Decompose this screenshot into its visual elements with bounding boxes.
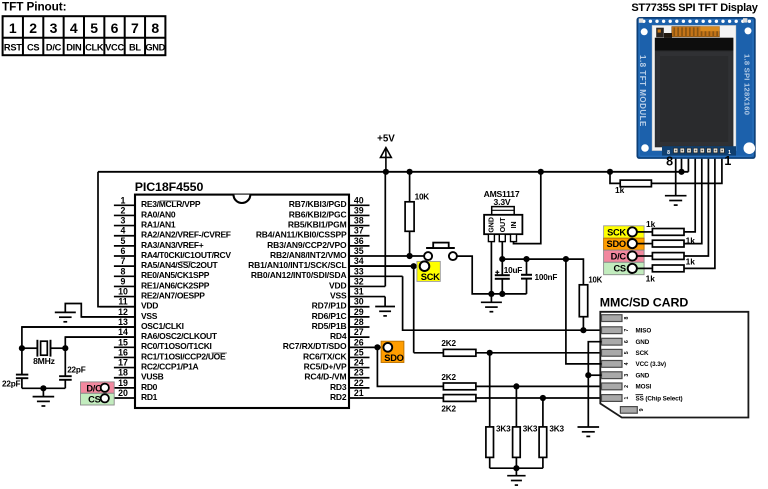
svg-text:33: 33 bbox=[354, 266, 364, 276]
wire 1k D/C to TFT pin3 bbox=[684, 151, 708, 257]
svg-text:9: 9 bbox=[121, 276, 126, 286]
U1 pin 37 RB4/AN11/KBI0/CSSPP bbox=[256, 226, 370, 240]
U1 pin 32 VDD bbox=[329, 276, 385, 290]
wire 1k RST to TFT pin1 bbox=[651, 151, 722, 184]
pushbutton S1 bbox=[424, 243, 457, 261]
junction 10K pullup bbox=[407, 169, 413, 175]
U1 pin 5 RA3/AN3/VREF+ bbox=[114, 236, 204, 250]
MMC pin 2 bbox=[602, 383, 652, 391]
U1 UOE overline pin16 bbox=[212, 352, 228, 354]
U1 pin 21 RD2 bbox=[330, 388, 443, 402]
svg-text:RA2/AN2/VREF-/CVREF: RA2/AN2/VREF-/CVREF bbox=[141, 230, 231, 240]
svg-text:10K: 10K bbox=[415, 192, 430, 201]
wire U1 pin13 OSC1 to crystal bbox=[22, 327, 135, 348]
svg-text:RD0: RD0 bbox=[141, 382, 158, 392]
svg-text:1: 1 bbox=[9, 20, 17, 36]
svg-text:VUSB: VUSB bbox=[141, 372, 164, 382]
svg-text:17: 17 bbox=[118, 358, 128, 368]
svg-text:RE0/AN5/CK1SPP: RE0/AN5/CK1SPP bbox=[141, 270, 210, 280]
node crystal left junction bbox=[19, 345, 25, 351]
svg-text:22: 22 bbox=[354, 378, 364, 388]
wire MMC GND pin3 bbox=[588, 374, 601, 376]
svg-text:1k: 1k bbox=[686, 257, 696, 267]
U1 pin 4 RA2/AN2/VREF-/CVREF bbox=[114, 226, 231, 240]
U1 SS overline pin7 bbox=[180, 261, 192, 263]
svg-text:PIC18F4550: PIC18F4550 bbox=[135, 180, 204, 194]
svg-text:RB7/KBI3/PGD: RB7/KBI3/PGD bbox=[289, 199, 347, 209]
junction SCK branch bbox=[411, 263, 417, 269]
junction 3K3 ground bbox=[513, 465, 519, 471]
svg-text:25: 25 bbox=[354, 347, 364, 357]
MMC pin 1 bbox=[602, 395, 631, 402]
regulator U2 AMS1117 3.3V bbox=[484, 189, 523, 242]
resistor R9 3K3 SCK divider bbox=[486, 353, 511, 468]
wire U1 pin32 VDD to +5V rail bbox=[384, 172, 386, 287]
svg-text:1k: 1k bbox=[615, 185, 625, 195]
junction AMS1117 IN riser bbox=[538, 169, 544, 175]
svg-text:29: 29 bbox=[354, 307, 364, 317]
wire 1k CS to TFT pin2 bbox=[684, 151, 715, 269]
svg-text:31: 31 bbox=[354, 287, 364, 297]
wire TFT pin8 GND bbox=[675, 151, 677, 196]
svg-text:RD7/P1D: RD7/P1D bbox=[312, 301, 347, 311]
svg-text:39: 39 bbox=[354, 205, 364, 215]
svg-text:13: 13 bbox=[118, 317, 128, 327]
U1 pin 7 RA5/AN4/SS/C2OUT bbox=[114, 256, 219, 270]
TFT display module bbox=[637, 18, 755, 158]
U1 pin 36 RB3/AN9/CCP2/VPO bbox=[267, 236, 369, 250]
svg-text:RC0/T1OSO/T1CKI: RC0/T1OSO/T1CKI bbox=[141, 341, 212, 351]
svg-text:1.8 TFT MODULE: 1.8 TFT MODULE bbox=[638, 55, 647, 127]
svg-text:3: 3 bbox=[624, 374, 630, 377]
U1 pin 31 VSS bbox=[330, 287, 385, 301]
svg-text:7: 7 bbox=[121, 256, 126, 266]
junction SS/3K3 bbox=[540, 395, 546, 401]
svg-text:1: 1 bbox=[121, 195, 126, 205]
svg-text:RA5/AN4/SS/C2OUT: RA5/AN4/SS/C2OUT bbox=[141, 260, 219, 270]
svg-text:7: 7 bbox=[624, 329, 630, 332]
U1 pin 3 RA1/AN1 bbox=[114, 216, 176, 230]
wire SCK row right bbox=[476, 352, 602, 354]
wire 1k SDO to TFT pin4 bbox=[684, 151, 702, 244]
U1 pin 6 RA4/T0CKI/C1OUT/RCV bbox=[114, 246, 231, 260]
wire +5V rail bbox=[98, 171, 688, 173]
svg-text:30: 30 bbox=[354, 297, 364, 307]
svg-text:36: 36 bbox=[354, 236, 364, 246]
node SCK connector right bbox=[604, 226, 645, 238]
node CS connector left bbox=[81, 393, 115, 405]
wire MMC GND pin6 bbox=[588, 342, 601, 427]
node D/C connector left bbox=[81, 382, 115, 393]
svg-text:28: 28 bbox=[354, 317, 364, 327]
MMC pin 7 bbox=[602, 327, 652, 335]
svg-text:RC4/D-/VM: RC4/D-/VM bbox=[304, 372, 346, 382]
svg-text:+5V: +5V bbox=[377, 134, 395, 145]
svg-text:DIN: DIN bbox=[66, 43, 82, 53]
svg-text:GND: GND bbox=[636, 339, 650, 346]
svg-text:32: 32 bbox=[354, 276, 364, 286]
svg-text:5: 5 bbox=[121, 236, 126, 246]
U1 pin 2 RA0/AN0 bbox=[114, 205, 176, 219]
wire MOSI row right bbox=[476, 385, 602, 387]
svg-text:2: 2 bbox=[29, 20, 37, 36]
wire crystal caps to ground bbox=[22, 387, 65, 389]
svg-text:VDD: VDD bbox=[329, 280, 347, 290]
U1 pin 25 RC6/TX/CK bbox=[303, 347, 370, 361]
svg-text:10: 10 bbox=[118, 287, 128, 297]
svg-text:MISO: MISO bbox=[636, 328, 652, 335]
svg-text:3: 3 bbox=[121, 216, 126, 226]
svg-text:8: 8 bbox=[624, 317, 630, 320]
U1 pin 35 RB2/AN8/INT2/VMO bbox=[270, 246, 369, 260]
junction VCC drop bbox=[563, 256, 569, 262]
svg-text:RB0/AN12/INT0/SDI/SDA: RB0/AN12/INT0/SDI/SDA bbox=[251, 270, 347, 280]
svg-text:ST7735S SPI TFT Display: ST7735S SPI TFT Display bbox=[631, 2, 758, 14]
svg-text:OSC1/CLKI: OSC1/CLKI bbox=[141, 321, 184, 331]
resistor R1 10K pullup bbox=[405, 172, 429, 256]
svg-text:8: 8 bbox=[666, 155, 673, 169]
ground MMC bbox=[578, 426, 600, 428]
svg-text:18: 18 bbox=[118, 368, 128, 378]
svg-text:RA0/AN0: RA0/AN0 bbox=[141, 209, 176, 219]
resistor R14 1k D/C to TFT DC bbox=[637, 253, 695, 267]
svg-text:10K: 10K bbox=[588, 275, 602, 284]
svg-text:OUT: OUT bbox=[500, 217, 507, 233]
svg-text:15: 15 bbox=[118, 337, 128, 347]
wire U1 pin12 VSS to ground bbox=[65, 304, 135, 317]
svg-text:26: 26 bbox=[354, 337, 364, 347]
U1 pin 38 RB5/KBI1/PGM bbox=[288, 216, 370, 230]
junction ground rail 10uF bbox=[499, 291, 505, 297]
svg-text:SDO: SDO bbox=[607, 239, 626, 249]
svg-text:GND: GND bbox=[636, 373, 650, 380]
svg-text:RA4/T0CKI/C1OUT/RCV: RA4/T0CKI/C1OUT/RCV bbox=[141, 250, 231, 260]
svg-text:VDD: VDD bbox=[141, 301, 158, 311]
svg-text:19: 19 bbox=[118, 378, 128, 388]
U1 pin 1 RE3/MCLR/VPP bbox=[114, 195, 201, 209]
wire 1k SCK to TFT pin5 bbox=[684, 151, 695, 232]
wire U2 OUT pin to 3.3V rail bbox=[501, 242, 503, 260]
MMC pin 1 SS label with overline bbox=[636, 395, 683, 403]
svg-text:SS (Chip Select): SS (Chip Select) bbox=[636, 395, 683, 402]
svg-text:RA1/AN1: RA1/AN1 bbox=[141, 219, 176, 229]
U1 pin 24 RC5/D+/VP bbox=[304, 358, 370, 372]
svg-text:RB6/KBI2/PGC: RB6/KBI2/PGC bbox=[289, 209, 347, 219]
node crystal right junction bbox=[62, 345, 68, 351]
node CS connector right bbox=[604, 262, 645, 274]
svg-text:40: 40 bbox=[354, 195, 364, 205]
svg-text:1.8 SPI 128X160: 1.8 SPI 128X160 bbox=[743, 54, 752, 115]
svg-text:2: 2 bbox=[624, 385, 630, 388]
U1 pin 23 RC4/D-/VM bbox=[304, 368, 369, 382]
U1 pin 12 VSS bbox=[81, 307, 157, 321]
svg-text:MOSI: MOSI bbox=[636, 384, 652, 391]
svg-text:35: 35 bbox=[354, 246, 364, 256]
svg-text:6: 6 bbox=[121, 246, 126, 256]
resistor R7 10K MISO pullup bbox=[579, 275, 602, 330]
junction 1k RST pullup bbox=[607, 169, 613, 175]
resistor R15 1k CS to TFT CS bbox=[637, 265, 684, 283]
wire U2 IN pin to +5V rail bbox=[514, 172, 541, 244]
svg-text:RD5/P1B: RD5/P1B bbox=[312, 321, 347, 331]
ground U1 pin31 VSS bbox=[375, 297, 395, 316]
svg-text:8: 8 bbox=[121, 266, 126, 276]
TFT pin row labels bbox=[666, 154, 731, 169]
svg-text:38: 38 bbox=[354, 216, 364, 226]
wire U1 pin33 SDI to MMC MISO bbox=[403, 276, 602, 330]
node SCK connector left bbox=[417, 261, 440, 282]
svg-text:CLK: CLK bbox=[85, 43, 104, 53]
svg-text:2K2: 2K2 bbox=[441, 339, 456, 348]
svg-text:22pF: 22pF bbox=[2, 380, 21, 389]
svg-text:D/C: D/C bbox=[86, 383, 102, 393]
svg-text:SCK: SCK bbox=[607, 227, 626, 237]
U1 pin 28 RD5/P1B bbox=[312, 317, 370, 331]
junction 10K/MISO bbox=[580, 327, 586, 333]
svg-text:8MHz: 8MHz bbox=[33, 356, 55, 366]
svg-text:1k: 1k bbox=[646, 273, 656, 283]
wire U1 pin14 OSC2 to crystal bbox=[65, 337, 135, 348]
resistor R4 2K2 SCK bbox=[441, 339, 476, 356]
svg-text:3K3: 3K3 bbox=[523, 425, 538, 434]
svg-text:VCC: VCC bbox=[105, 43, 124, 53]
junction pin35/10K bbox=[407, 253, 413, 259]
resistor R13 1k SDO to TFT DIN bbox=[637, 235, 695, 247]
resistor R11 3K3 SS divider bbox=[539, 398, 564, 468]
TFT pinout table bbox=[3, 16, 166, 55]
svg-text:RC2/CCP1/P1A: RC2/CCP1/P1A bbox=[141, 361, 198, 371]
svg-text:D/C: D/C bbox=[46, 43, 62, 53]
capacitor C4 22pF right bbox=[59, 348, 86, 388]
junction TFT BL pin7 bbox=[678, 169, 684, 175]
capacitor C3 22pF left bbox=[2, 348, 28, 388]
svg-text:14: 14 bbox=[118, 327, 128, 337]
svg-text:SCK: SCK bbox=[636, 350, 650, 357]
+5V supply symbol bbox=[377, 134, 395, 172]
svg-text:3K3: 3K3 bbox=[549, 425, 564, 434]
wire SCK row to MMC pin5 bbox=[414, 352, 444, 354]
wire U2 GND pin to ground rail bbox=[490, 242, 492, 294]
svg-text:SDO: SDO bbox=[384, 353, 403, 363]
U1 pin 16 RC1/T1OSI/CCP2/UOE bbox=[114, 347, 226, 361]
U1 pin 13 OSC1/CLKI bbox=[22, 317, 184, 331]
svg-text:RD4: RD4 bbox=[330, 331, 347, 341]
MMC pin 8 bbox=[602, 315, 631, 322]
svg-text:1: 1 bbox=[624, 396, 630, 399]
node SDO connector right bbox=[604, 238, 645, 250]
resistor R2 1k RST pullup bbox=[610, 172, 651, 195]
svg-text:SCK: SCK bbox=[421, 272, 440, 282]
U1 pin 10 RE2/AN7/OESPP bbox=[114, 287, 205, 301]
svg-text:100nF: 100nF bbox=[535, 273, 558, 282]
resistor R12 1k SCK to TFT CLK bbox=[637, 219, 684, 235]
svg-text:2K2: 2K2 bbox=[441, 404, 456, 413]
U1 pin 20 RD1 bbox=[109, 388, 157, 402]
svg-text:RE2/AN7/OESPP: RE2/AN7/OESPP bbox=[141, 290, 205, 300]
svg-text:MMC/SD CARD: MMC/SD CARD bbox=[600, 295, 689, 309]
wire 3.3V to MMC VCC pin4 bbox=[566, 259, 602, 364]
svg-text:RA3/AN3/VREF+: RA3/AN3/VREF+ bbox=[141, 240, 204, 250]
svg-text:4: 4 bbox=[70, 20, 78, 36]
svg-text:6: 6 bbox=[624, 340, 630, 343]
junction crystal ground bbox=[40, 385, 46, 391]
wire crystal left lead bbox=[22, 347, 38, 349]
svg-text:2K2: 2K2 bbox=[441, 373, 456, 382]
U1 pin 8 RE0/AN5/CK1SPP bbox=[114, 266, 210, 280]
svg-text:CS: CS bbox=[88, 395, 100, 405]
svg-text:4: 4 bbox=[121, 226, 126, 236]
svg-text:GND: GND bbox=[489, 217, 496, 233]
MMC pin 4 bbox=[602, 361, 667, 369]
svg-text:10uF: 10uF bbox=[504, 266, 523, 275]
MMC pin 9 bbox=[620, 407, 644, 414]
svg-text:TFT Pinout:: TFT Pinout: bbox=[2, 0, 66, 14]
U1 pin 33 RB0/AN12/INT0/SDI/SDA bbox=[251, 266, 403, 280]
U1 pin 29 RD6/P1C bbox=[312, 307, 370, 321]
svg-text:RC7/RX/DT/SDO: RC7/RX/DT/SDO bbox=[283, 341, 347, 351]
svg-text:RD6/P1C: RD6/P1C bbox=[312, 311, 347, 321]
wire SDO branch to MOSI row bbox=[377, 347, 443, 386]
svg-text:RE1/AN6/CK2SPP: RE1/AN6/CK2SPP bbox=[141, 280, 210, 290]
U1 pin 34 RB1/AN10/INT1/SCK/SCL bbox=[248, 256, 420, 270]
svg-text:RST: RST bbox=[4, 43, 22, 53]
U1 MCLR overline bbox=[160, 200, 181, 202]
MMC pin 5 bbox=[602, 349, 650, 357]
wire SCK branch down bbox=[413, 266, 415, 353]
wire +5V rail left drop to U1 pin 11 VDD bbox=[98, 172, 135, 307]
junction OUT/10uF bbox=[499, 256, 505, 262]
svg-text:D/C: D/C bbox=[611, 251, 627, 261]
svg-text:2: 2 bbox=[121, 205, 126, 215]
svg-text:23: 23 bbox=[354, 368, 364, 378]
U1 pin 14 RA6/OSC2/CLKOUT bbox=[65, 327, 218, 341]
U1 pin 26 RC7/RX/DT/SDO bbox=[283, 337, 384, 351]
connector MMC/SD card outline bbox=[600, 295, 749, 417]
U1 pin 22 RD3 bbox=[330, 378, 370, 392]
svg-text:22pF: 22pF bbox=[67, 366, 86, 375]
wire U1 pin26 to SDO connector bbox=[349, 346, 384, 348]
svg-text:1k: 1k bbox=[646, 219, 656, 229]
svg-text:RB4/AN11/KBI0/CSSPP: RB4/AN11/KBI0/CSSPP bbox=[256, 230, 347, 240]
svg-text:27: 27 bbox=[354, 327, 364, 337]
capacitor C1 10uF bbox=[495, 259, 523, 294]
junction +5V/VDD riser bbox=[383, 169, 389, 175]
svg-text:CS: CS bbox=[613, 264, 625, 274]
wire crystal right lead bbox=[51, 347, 66, 349]
svg-text:3: 3 bbox=[50, 20, 58, 36]
U1 pin 40 RB7/KBI3/PGD bbox=[289, 195, 370, 209]
svg-text:12: 12 bbox=[118, 307, 128, 317]
svg-text:3K3: 3K3 bbox=[496, 425, 511, 434]
svg-text:RD1: RD1 bbox=[141, 392, 158, 402]
svg-text:5: 5 bbox=[624, 351, 630, 354]
junction MMC grounds bbox=[585, 372, 591, 378]
junction ground rail AMS GND bbox=[488, 291, 494, 297]
ground crystal bbox=[33, 388, 55, 406]
svg-text:3.3V: 3.3V bbox=[494, 197, 511, 207]
svg-text:RC5/D+/VP: RC5/D+/VP bbox=[304, 361, 347, 371]
U1 pin 18 VUSB bbox=[114, 368, 164, 382]
resistor R10 3K3 MOSI divider bbox=[513, 386, 538, 468]
svg-text:24: 24 bbox=[354, 358, 364, 368]
U1 pin 30 RD7/P1D bbox=[312, 297, 370, 311]
wire 3.3V rail bbox=[502, 259, 583, 285]
svg-text:5: 5 bbox=[90, 20, 98, 36]
svg-text:GND: GND bbox=[145, 43, 165, 53]
svg-text:RA6/OSC2/CLKOUT: RA6/OSC2/CLKOUT bbox=[141, 331, 218, 341]
svg-text:34: 34 bbox=[354, 256, 364, 266]
svg-text:20: 20 bbox=[118, 388, 128, 398]
svg-text:RB3/AN9/CCP2/VPO: RB3/AN9/CCP2/VPO bbox=[267, 240, 347, 250]
svg-text:RB2/AN8/INT2/VMO: RB2/AN8/INT2/VMO bbox=[270, 250, 347, 260]
junction SDO branch bbox=[374, 344, 380, 350]
svg-text:7: 7 bbox=[131, 20, 139, 36]
crystal X1 8MHz bbox=[33, 340, 55, 366]
resistor R5 2K2 MOSI bbox=[441, 373, 476, 390]
svg-text:9: 9 bbox=[639, 408, 645, 411]
svg-text:VSS: VSS bbox=[141, 311, 158, 321]
svg-text:RB5/KBI1/PGM: RB5/KBI1/PGM bbox=[288, 219, 347, 229]
svg-text:CS: CS bbox=[27, 43, 39, 53]
junction 100nF top bbox=[523, 256, 529, 262]
svg-text:8: 8 bbox=[151, 20, 159, 36]
wire TFT pin7 BL to rail bbox=[681, 151, 683, 172]
svg-text:RC6/TX/CK: RC6/TX/CK bbox=[303, 351, 348, 361]
svg-text:6: 6 bbox=[111, 20, 119, 36]
MMC pin 3 bbox=[602, 372, 650, 380]
ground regulator area bbox=[481, 294, 502, 312]
svg-text:RD2: RD2 bbox=[330, 392, 347, 402]
svg-text:VCC (3.3v): VCC (3.3v) bbox=[636, 361, 667, 368]
wire U1 pin35 to pushbutton bbox=[370, 255, 424, 257]
microcontroller U1 PIC18F4550 body bbox=[135, 180, 349, 408]
svg-text:IN: IN bbox=[511, 221, 518, 228]
U1 pin 39 RB6/KBI2/PGC bbox=[289, 205, 370, 219]
ground 3K3 dividers bbox=[507, 468, 525, 485]
U1 pin 9 RE1/AN6/CK2SPP bbox=[114, 276, 210, 290]
svg-text:21: 21 bbox=[354, 388, 364, 398]
node SDO connector bbox=[381, 341, 404, 363]
U1 pin 19 RD0 bbox=[109, 378, 157, 392]
U1 pin 17 RC2/CCP1/P1A bbox=[114, 358, 199, 372]
svg-text:11: 11 bbox=[118, 297, 127, 307]
svg-text:4: 4 bbox=[624, 362, 630, 365]
svg-text:16: 16 bbox=[118, 347, 128, 357]
wire 3K3 common bbox=[490, 467, 543, 469]
ground TFT pin8 bbox=[665, 195, 687, 197]
wire pushbutton to ground rail bbox=[457, 256, 526, 294]
MMC pin 6 bbox=[602, 338, 650, 346]
wire TFT pin6 VCC to rail end bbox=[687, 151, 689, 172]
svg-text:VSS: VSS bbox=[330, 290, 347, 300]
svg-text:BL: BL bbox=[129, 43, 141, 53]
U1 pin 27 RD4 bbox=[330, 327, 370, 341]
wire SS row right bbox=[476, 397, 602, 399]
U1 pin 15 RC0/T1OSO/T1CKI bbox=[114, 337, 212, 351]
wire U1 pin34 to SCK connector bbox=[349, 265, 420, 267]
svg-text:1: 1 bbox=[724, 154, 731, 168]
svg-text:RB1/AN10/INT1/SCK/SCL: RB1/AN10/INT1/SCK/SCL bbox=[248, 260, 346, 270]
junction MOSI/3K3 bbox=[513, 383, 519, 389]
svg-text:37: 37 bbox=[354, 226, 364, 236]
ground U1 pin12 VSS bbox=[55, 311, 76, 313]
svg-text:RD3: RD3 bbox=[330, 382, 347, 392]
capacitor C2 100nF bbox=[521, 259, 557, 294]
resistor R6 2K2 SS bbox=[441, 395, 476, 414]
node D/C connector right bbox=[604, 250, 645, 262]
U1 pin 11 VDD bbox=[100, 297, 158, 311]
junction SCK/3K3 bbox=[487, 350, 493, 356]
